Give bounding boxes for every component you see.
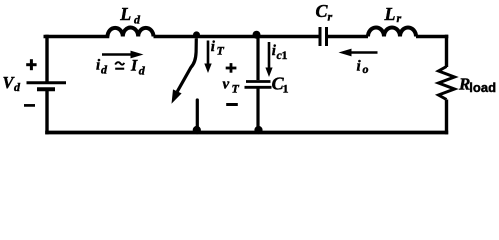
svg-text:r: r: [328, 10, 333, 24]
battery minus sign: [24, 104, 35, 107]
inductor L_r: [368, 28, 416, 37]
svg-text:o: o: [363, 62, 369, 76]
capacitor C1 wire lower: [256, 89, 259, 133]
svg-text:d: d: [14, 80, 21, 94]
current arrow i_T: [204, 41, 211, 74]
current arrow i_c1: [265, 42, 272, 77]
svg-text:T: T: [232, 82, 240, 96]
svg-text:r: r: [397, 11, 402, 25]
svg-text:L: L: [119, 4, 131, 24]
svg-text:load: load: [469, 80, 496, 95]
wire right side lower: [445, 100, 448, 135]
wire left side lower: [45, 90, 48, 135]
svg-text:I: I: [130, 57, 138, 74]
svg-text:1: 1: [283, 82, 289, 96]
inductor L_d: [108, 28, 154, 37]
node dot top switch: [193, 31, 200, 38]
wire right side upper: [445, 35, 448, 67]
wire top-middle segment: [154, 35, 320, 39]
switch blade (thyristor): [177, 39, 196, 92]
current arrow i_o: [339, 49, 378, 57]
capacitor C1 top plate: [246, 80, 271, 83]
wire top-right segment: [416, 35, 448, 39]
svg-text:1: 1: [282, 48, 288, 62]
svg-text:d: d: [139, 63, 146, 77]
wire top-left segment: [45, 35, 107, 39]
plus sign v_T: [226, 63, 237, 73]
capacitor C_r: [320, 27, 327, 46]
wire left side upper: [45, 35, 48, 82]
svg-text:d: d: [101, 63, 108, 77]
capacitor C1 bottom plate: [245, 86, 272, 89]
battery V_d long plate: [27, 81, 67, 84]
svg-text:T: T: [217, 44, 225, 58]
battery plus sign: [26, 59, 36, 70]
wire between C_r and L_r: [328, 35, 369, 39]
svg-text:L: L: [384, 4, 396, 24]
minus sign v_T: [226, 103, 238, 106]
node dot bottom C1: [254, 126, 262, 134]
wire bottom: [45, 131, 448, 135]
node dot top C1: [253, 31, 261, 39]
svg-text:v: v: [223, 77, 230, 93]
switch bottom stub: [196, 100, 199, 133]
resistor R_load: [439, 67, 455, 100]
current arrow i_d: [102, 51, 144, 59]
capacitor C1 wire upper: [256, 37, 259, 81]
node dot bottom switch: [193, 126, 201, 134]
svg-text:d: d: [134, 13, 141, 27]
battery V_d short plate: [37, 87, 55, 91]
